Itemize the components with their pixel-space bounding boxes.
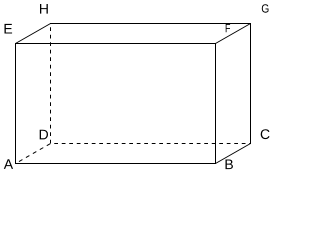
edge DH hidden (left back vertical, dashed) xyxy=(50,24,52,144)
edge BF (right front vertical) xyxy=(215,43,217,164)
edge AD hidden (bottom left depth, dashed) xyxy=(16,144,51,164)
label C xyxy=(261,129,270,139)
label H xyxy=(40,4,48,14)
label D xyxy=(40,130,48,140)
edge AE (left front vertical) xyxy=(15,43,17,164)
edge EH (top left depth) xyxy=(16,24,51,44)
edge FG (top right depth) xyxy=(216,24,251,44)
edge GC (right back vertical) xyxy=(250,23,252,144)
label A xyxy=(4,159,13,169)
edge AB (bottom front) xyxy=(15,163,216,165)
label B xyxy=(225,159,232,169)
edge HG (top back) xyxy=(50,23,251,25)
edge DC hidden (bottom back, dashed) xyxy=(51,143,251,145)
label E xyxy=(4,24,12,34)
edge BC (bottom right depth) xyxy=(216,144,251,164)
label F xyxy=(226,24,230,32)
label G xyxy=(262,4,269,12)
edge EF (top front) xyxy=(15,43,216,45)
